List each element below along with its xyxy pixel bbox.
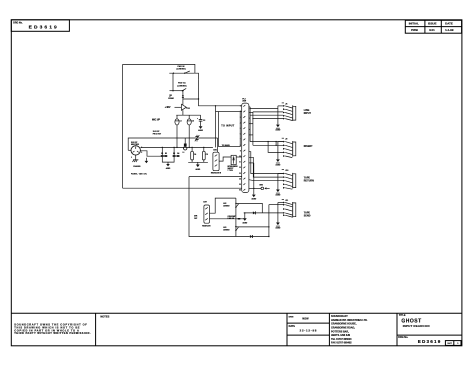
wire R3 drop [173,147,174,155]
svg-text:C1: C1 [180,121,182,123]
svg-text:HARMAN INT. INDUSTRIES LTD.: HARMAN INT. INDUSTRIES LTD. [331,319,368,322]
capacitor C2 electrolytic [187,115,194,148]
svg-text:TR1: TR1 [186,108,190,110]
wire J9 sleeve down [277,142,279,160]
wire loop left [189,177,250,237]
svg-text:SOUNDCRAFT: SOUNDCRAFT [331,315,348,318]
wire ground return bottom [123,187,242,189]
transistor TR1 [182,104,190,115]
ground G2 [145,158,149,164]
svg-text:3.01: 3.01 [429,28,435,32]
svg-text:DATE: DATE [289,325,296,328]
ground G3 [166,162,171,170]
svg-text:PAD 1A: PAD 1A [178,82,186,85]
svg-text:J8: J8 [285,103,287,105]
svg-text:LINKED: LINKED [223,229,230,231]
wire drop join [216,111,219,113]
svg-text:+: + [197,118,198,120]
svg-text:CN6: CN6 [213,150,217,152]
wire loop LK2 [236,203,262,213]
capacitor C5 [202,147,208,163]
svg-text:22-12-98: 22-12-98 [300,328,318,332]
svg-text:3: 3 [141,152,142,154]
svg-text:TAPE: TAPE [304,211,311,214]
svg-text:LINE UP: LINE UP [228,218,236,220]
link switch LK1 PAD [169,65,195,74]
svg-text:STAND: STAND [168,97,174,100]
wire into XLR left [128,149,131,151]
ferrite L1 [183,138,187,154]
jumper JP1 [168,96,174,101]
svg-text:DRN: DRN [289,317,294,319]
svg-text:CN7: CN7 [203,201,207,203]
svg-text:LINE: LINE [304,110,310,112]
wire pin1 down [135,155,137,160]
svg-text:13: 13 [239,173,241,175]
O/P lift labels [228,216,237,220]
label TAPE RETURN [304,176,314,182]
svg-text:LINKED: LINKED [223,206,230,208]
svg-text:CRANBORNE HOUSE,: CRANBORNE HOUSE, [331,323,357,326]
svg-text:PAD IN: PAD IN [178,65,185,68]
ground G6 [276,125,282,132]
svg-text:15: 15 [239,184,241,186]
connector CN7 [202,201,211,227]
svg-text:1-1-99: 1-1-99 [445,28,454,32]
board outline top edge [123,64,195,73]
svg-text:CRANBORNE ROAD,: CRANBORNE ROAD, [331,327,355,330]
svg-text:DRG No.: DRG No. [398,336,408,339]
wire F1 to PL2 [236,156,242,158]
wire CN6 to F1 [219,157,231,161]
pin numbers PL2 [239,106,241,192]
wires PL2 to J10 [249,152,283,181]
svg-text:ED3619: ED3619 [418,339,442,344]
svg-text:TO INPUT: TO INPUT [221,124,234,127]
wire riser top to J11 [269,204,283,206]
wire right riser [268,205,269,237]
diode D5 [250,235,270,238]
wire shield into CN6 [217,138,219,152]
svg-text:HERTS. EN6 3JN: HERTS. EN6 3JN [331,334,350,337]
pins PL2 [243,105,245,191]
wire bus to ground [253,163,254,195]
wire to strip pin1 [199,99,242,106]
svg-text:R2: R2 [165,153,167,155]
svg-text:DRG No.: DRG No. [13,23,23,25]
wire supply rail [176,114,200,116]
TO INPUT loom box [219,112,241,147]
wire loop right of LK1 [195,73,199,80]
fuse F1 interlinked [228,155,239,172]
XLR connector SK1 [131,142,142,159]
svg-text:POTTERS BAR,: POTTERS BAR, [331,330,349,333]
svg-text:(LINKED): (LINKED) [177,85,186,87]
capacitor C4 [191,147,197,163]
svg-text:J9: J9 [285,139,287,141]
svg-text:TO MAIN: TO MAIN [222,144,231,147]
wires PL2 to J9 [249,129,283,152]
svg-text:DATE: DATE [445,21,453,25]
capacitor C3 [197,115,205,126]
jack J10 [278,169,296,189]
svg-text:SHT: SHT [447,343,452,345]
svg-text:(LINKED): (LINKED) [176,69,185,71]
wire box to strip pin2 [240,111,242,113]
svg-text:INITIAL: INITIAL [409,21,419,25]
ground G7 [276,159,282,166]
svg-text:INTERLINKED: INTERLINKED [228,166,239,168]
wire J8 sleeve down [277,106,279,125]
DIR O/P label [194,215,198,220]
wire CN7 lower [210,218,245,220]
wire LK3 to right [236,226,269,228]
wire shield loop over XLR [128,138,217,150]
svg-text:SEND: SEND [304,215,311,217]
wire R1 drop [162,147,163,155]
ground G8 [276,190,282,197]
svg-text:INPUT: INPUT [304,113,312,115]
svg-text:MIC I/P: MIC I/P [152,119,160,122]
wire loop to LK2 [183,80,199,100]
bottom band [11,312,462,314]
svg-text:+48V: +48V [165,106,171,109]
wires PL2 to J8 [249,107,283,145]
jack J9 [278,138,296,157]
svg-text:16: 16 [239,190,241,192]
ground G10 [276,223,282,230]
bus wire [235,198,237,236]
svg-text:ISSUE: ISSUE [428,21,437,25]
top right issue table [405,20,461,33]
svg-text:PANEL TAB S/C: PANEL TAB S/C [131,172,148,175]
svg-text:C3: C3 [203,120,205,122]
wire pin11 stub [249,162,254,164]
svg-text:TITLE: TITLE [399,314,406,317]
wire U loop under resistors [162,157,174,162]
connector CN6 [211,150,222,175]
svg-text:TAPE: TAPE [304,176,311,179]
wire lower loop feed [189,176,242,178]
ground G5 [251,195,257,201]
node GND link [249,185,270,190]
wire drop mid [215,105,216,147]
svg-text:J10: J10 [285,170,288,172]
label LINE INPUT [304,110,312,115]
svg-text:C5: C5 [206,154,208,156]
svg-text:PWB: PWB [411,28,418,32]
svg-text:10: 10 [239,156,241,158]
svg-text:THIRD PARTY WITHOUT WRITTEN PE: THIRD PARTY WITHOUT WRITTEN PERMISSION. [14,331,91,335]
svg-text:INPUT REARCON: INPUT REARCON [403,324,430,328]
svg-text:INSERT: INSERT [304,146,313,148]
svg-text:WJW: WJW [302,316,309,320]
capacitor C6 trimmer on shield wire [195,135,200,142]
resistor R2 [164,153,167,157]
+48V label [165,106,181,109]
svg-text:ED3619: ED3619 [29,25,59,31]
wire diode run to J11 [244,212,283,214]
connector PL2 header [242,98,249,192]
diode D1 feed [182,91,184,105]
svg-text:11: 11 [239,162,241,164]
wire CN7 to LK bus [210,198,236,213]
panel note [131,172,148,175]
junction + ground G9 [242,212,248,224]
XLR pin note [153,131,162,136]
svg-text:L1: L1 [183,152,185,154]
wire main pin2 run [140,146,213,148]
label INSERT [304,146,313,148]
diode D4 [253,211,256,214]
MIC I/P label [152,119,160,122]
link switch LK3 [223,226,238,231]
wire pin3 run [140,151,161,156]
resistor R5 [238,218,241,220]
capacitor C1 electrolytic [175,115,182,148]
svg-text:26W: 26W [242,101,246,103]
svg-text:PIN 2 HOT: PIN 2 HOT [153,134,162,136]
link switch LK2 PAD [170,82,187,92]
svg-text:C2: C2 [192,121,194,123]
ground under C3 [198,126,204,132]
link switch LK2 [223,203,238,208]
label TAPE SEND [304,211,311,217]
wire lower rail [188,161,208,163]
resistor R1 [161,153,164,157]
svg-text:FAX 01707 660482: FAX 01707 660482 [331,342,352,345]
svg-text:J11: J11 [285,200,288,202]
wire J11 sleeve down [277,203,279,223]
jack J8 [278,103,296,121]
svg-text:RETURN: RETURN [304,180,314,182]
chassis ground [133,160,141,168]
svg-text:TEL 01707 665000: TEL 01707 665000 [331,338,352,341]
wire left side between switches [172,73,174,91]
svg-text:NOTES: NOTES [100,314,109,318]
resistor R3 [173,153,176,157]
svg-text:1: 1 [131,157,132,159]
wire J10 sleeve down [277,174,279,190]
svg-text:T TYPE: T TYPE [228,170,233,172]
board outline left edge [122,64,124,188]
ground G4 [195,162,201,171]
svg-text:12: 12 [239,167,241,169]
resistor R4 [176,152,179,157]
